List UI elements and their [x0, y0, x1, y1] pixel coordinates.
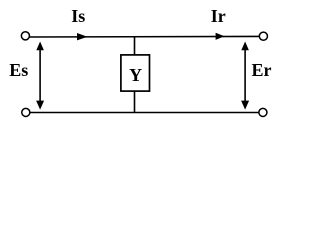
svg-text:Y: Y: [129, 65, 142, 85]
terminal: sending-end bottom port (open circle): [22, 108, 30, 116]
terminal: sending-end top port (open circle): [21, 32, 29, 40]
admittance Y (shunt element box): [121, 55, 150, 91]
wire: bottom return conductor: [30, 112, 260, 114]
svg-text:Ir: Ir: [211, 6, 226, 26]
voltage arrow Es: double-headed vertical arrow at sending end: [36, 42, 44, 110]
svg-text:Es: Es: [9, 60, 28, 80]
voltage arrow Er: double-headed vertical arrow at receiving end: [241, 42, 249, 110]
terminal: receiving-end top port (open circle): [259, 32, 267, 40]
wire: stub from top wire down to admittance box: [134, 37, 136, 55]
svg-text:Er: Er: [252, 60, 272, 80]
arrowhead: sending current Is direction on top wire: [77, 33, 87, 40]
wire: stub from admittance box down to bottom wire: [134, 91, 136, 113]
terminal: receiving-end bottom port (open circle): [259, 108, 267, 116]
wire: top conductor from sending terminal to receiving terminal: [30, 35, 260, 38]
arrowhead: receiving current Ir direction on top wire: [216, 33, 225, 40]
svg-text:Is: Is: [71, 6, 85, 26]
